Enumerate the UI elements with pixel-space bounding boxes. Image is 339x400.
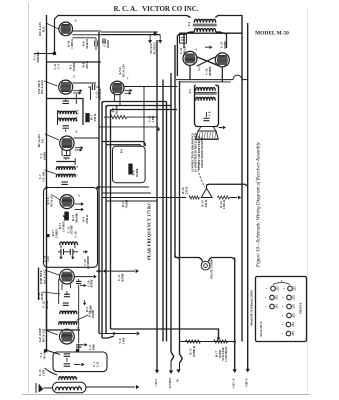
junction dots avc top — [45, 186, 99, 189]
resistor R box if1 — [86, 114, 89, 122]
label R-7 30000 — [111, 105, 118, 114]
transformer T-4 secondary — [194, 28, 215, 31]
wire bus x175 — [174, 45, 176, 258]
label R-17 volume — [215, 346, 229, 361]
cap C-18 — [64, 291, 70, 297]
svg-text:235: 235 — [291, 295, 295, 300]
wire P6 feed2 — [106, 145, 141, 147]
capacitor C-24 block — [180, 35, 187, 44]
wire V4 arrow — [75, 202, 85, 211]
cap C-9 det — [63, 151, 69, 158]
wire V1 grid loop — [55, 16, 171, 56]
svg-text:115-160: 115-160 — [41, 171, 45, 182]
tube V7 AF RCA-235 — [60, 329, 75, 344]
label C-13 1MF — [148, 115, 155, 122]
coil L-7 — [60, 311, 77, 314]
wire lowif frame — [47, 291, 81, 330]
coil L-2 — [58, 111, 77, 114]
wire C-17 row — [96, 269, 139, 273]
label L-5 — [75, 174, 79, 176]
wire tri up — [207, 184, 248, 188]
svg-text:1 MF: 1 MF — [151, 115, 155, 122]
svg-text:.05MF: .05MF — [120, 273, 124, 282]
svg-text:RCA-235: RCA-235 — [41, 328, 45, 342]
svg-text:3: 3 — [78, 194, 80, 198]
svg-text:R. C. A. VICTOR CO INC.: R. C. A. VICTOR CO INC. — [113, 5, 198, 13]
wire V6 plate — [124, 86, 177, 88]
resistor R-17 zig — [214, 340, 228, 343]
wire speaker box — [195, 85, 219, 127]
svg-text:.05MF: .05MF — [90, 279, 94, 288]
wire V2 grid arrows — [73, 89, 83, 95]
label L-4 — [75, 166, 79, 168]
svg-text:235: 235 — [274, 304, 278, 309]
wire L10 legs — [61, 245, 75, 248]
wire T4 left — [170, 16, 191, 18]
svg-text:Figure 10—Schematic Wiring Dia: Figure 10—Schematic Wiring Diagram of Re… — [255, 141, 262, 268]
svg-text:.02MF: .02MF — [223, 41, 227, 50]
tube layout table — [250, 277, 307, 342]
cap C-7 bot — [62, 126, 68, 132]
svg-text:+45 V: +45 V — [154, 378, 158, 387]
wire bus x110 — [110, 110, 112, 330]
wire c18 pointer — [43, 292, 60, 294]
svg-text:PILOT LAMP: PILOT LAMP — [210, 259, 214, 278]
switch A HOT — [167, 352, 174, 389]
label C-2 70-140 — [39, 350, 46, 359]
resistor R-13 zig — [189, 196, 200, 199]
label R-18 — [82, 214, 89, 224]
svg-text:RCA-235: RCA-235 — [43, 270, 47, 284]
label TO DIAL — [149, 42, 156, 54]
svg-text:235: 235 — [291, 313, 295, 318]
label PILOT LAMP — [210, 259, 214, 278]
svg-text:6: 6 — [196, 48, 198, 52]
label 5 pin — [73, 75, 75, 79]
chassis triangle — [201, 188, 212, 197]
svg-text:12: 12 — [75, 320, 79, 324]
svg-text:CONTROL: CONTROL — [224, 346, 228, 361]
page bottom edge — [22, 394, 310, 396]
wire V4 pointer — [53, 195, 61, 200]
svg-text:I.F.: I.F. — [40, 138, 44, 143]
label R-3 350 — [90, 113, 97, 121]
svg-text:RCA-224: RCA-224 — [40, 80, 44, 94]
cap C if2 — [61, 182, 68, 184]
wire if2 top loop — [56, 158, 75, 165]
wire out hump — [233, 75, 248, 80]
note text block — [191, 132, 205, 172]
note pointer — [198, 162, 204, 187]
svg-text:R.F.: R.F. — [41, 26, 45, 32]
wire bus x166 — [166, 102, 168, 342]
svg-text:270 Ω: 270 Ω — [184, 186, 188, 194]
transformer T-4 core — [193, 24, 217, 26]
label C-25 02 — [220, 41, 227, 50]
loop antenna capsule — [53, 382, 87, 393]
label R-13 250 — [201, 199, 208, 207]
svg-text:350 Ω: 350 Ω — [85, 61, 89, 69]
page right edge — [307, 8, 309, 392]
svg-text:2-25: 2-25 — [46, 256, 50, 262]
tube V2 RCA-224 OSC — [59, 80, 73, 94]
wire V6b pointer — [45, 270, 59, 275]
label L-1 1 — [77, 385, 81, 387]
wire if2 pointer — [45, 170, 57, 174]
label 2 pin — [77, 327, 79, 331]
figure caption Figure 10 — [255, 141, 262, 268]
svg-text:5000: 5000 — [91, 344, 95, 351]
arrow lowif — [83, 300, 86, 306]
wire if1 frame — [47, 99, 84, 126]
wire bus x163 — [162, 80, 164, 342]
terminal sq left — [44, 349, 47, 352]
label R trim — [65, 157, 68, 161]
wire mid merge1 — [111, 329, 221, 341]
coil L-4 — [56, 167, 75, 170]
cap C-8 coupling — [88, 84, 100, 90]
resistor R-15 zig — [185, 340, 200, 343]
arrow osc r — [74, 363, 85, 367]
wire bus x46 — [46, 15, 48, 351]
wire T4 sec legs — [184, 32, 227, 48]
label C-12 250 — [95, 88, 102, 100]
label 1ST DET — [37, 80, 44, 94]
svg-text:235: 235 — [275, 286, 279, 291]
wire V3 pointer — [45, 134, 59, 140]
resistor R-6 vert — [129, 164, 132, 174]
label AVC RCA-235 — [118, 64, 125, 77]
label S-1 — [197, 66, 201, 71]
wire V3 legs — [62, 149, 70, 157]
wire V7 leg — [78, 344, 80, 352]
label R-11 — [58, 220, 65, 232]
svg-text:4700 Ω: 4700 Ω — [85, 214, 89, 224]
label T-5 — [188, 89, 192, 94]
label R-9 — [82, 39, 89, 49]
svg-text:P-6: P-6 — [120, 148, 124, 153]
svg-text:500,000: 500,000 — [74, 213, 78, 223]
label C-7b — [38, 171, 45, 182]
cap C16a — [58, 249, 78, 255]
svg-text:9: 9 — [225, 64, 229, 66]
svg-text:2440 Ω: 2440 Ω — [85, 39, 89, 49]
tube V3 RCA-235 — [60, 136, 74, 150]
label R-14 1350 — [219, 199, 226, 209]
label C-19 lab — [42, 300, 49, 309]
cap C-4 — [95, 38, 97, 50]
label C-17 — [117, 273, 124, 282]
svg-text:L-2: L-2 — [76, 109, 80, 114]
svg-text:6: 6 — [75, 19, 77, 23]
label 9 pin — [225, 64, 229, 66]
label C-4 val — [103, 40, 110, 49]
label P-6 — [120, 148, 124, 153]
wire vol row — [180, 340, 237, 343]
wire filament 1 — [102, 102, 167, 104]
enclosure pp box left — [177, 33, 242, 76]
wire bus x38 — [38, 268, 40, 301]
wire bus x235 +22V — [234, 258, 236, 371]
label L-7 — [76, 311, 80, 313]
svg-text:1.0 MEG: 1.0 MEG — [61, 220, 65, 232]
svg-text:MODEL M-50: MODEL M-50 — [255, 31, 289, 37]
transformer T-5 secondary — [196, 97, 216, 100]
svg-text:50,000: 50,000 — [91, 310, 95, 319]
svg-text:2: 2 — [77, 327, 79, 331]
label 6 pin — [75, 19, 77, 23]
svg-text:S-1: S-1 — [197, 66, 201, 71]
label R-19 left — [181, 186, 188, 194]
svg-text:-B: -B — [176, 379, 180, 382]
svg-text:Model M-50 (Much) (1930): Model M-50 (Much) (1930) — [250, 290, 254, 325]
svg-text:235: 235 — [274, 295, 278, 300]
label C-3 if — [39, 152, 46, 161]
wire bus x171 A-hot — [170, 73, 172, 352]
wire pilot row — [175, 258, 235, 262]
label L-2 — [76, 109, 80, 114]
label L-10 — [73, 231, 77, 238]
label AF AMP — [38, 328, 45, 342]
wire bias h197 — [102, 197, 186, 199]
label 4 pin — [75, 130, 77, 134]
resistor R-14 zig — [218, 196, 230, 199]
switch -B — [176, 354, 183, 383]
transformer T-5 primary — [196, 88, 216, 91]
wire V3 top — [74, 137, 99, 139]
label C-11 left — [33, 51, 40, 62]
wire antenna out arrow — [86, 385, 140, 389]
wire P6 feed1 — [102, 142, 145, 147]
resistor R-12 vert — [63, 212, 68, 220]
svg-text:C-8: C-8 — [208, 111, 212, 116]
wire V1 plate lines — [72, 31, 160, 38]
svg-text:1 MF: 1 MF — [121, 337, 125, 344]
transformer T-4 primary — [194, 19, 215, 22]
coil L-8 — [59, 322, 77, 325]
svg-text:C-5: C-5 — [56, 64, 60, 69]
terminal sq avc — [46, 234, 49, 237]
svg-text:FRONT: FRONT — [299, 301, 303, 313]
wire dial pair — [101, 32, 160, 35]
cap V7 bot — [76, 345, 82, 347]
cap det2 — [76, 279, 82, 284]
wire det2 legs — [62, 284, 71, 291]
wire mid merge2 — [102, 336, 114, 338]
cap C16b — [83, 250, 88, 253]
wire V2 col down — [76, 62, 99, 104]
wire c13 pointer — [45, 368, 58, 375]
wire filament 2 — [106, 106, 171, 108]
label 2ND DET — [39, 269, 46, 284]
label L-8 — [75, 320, 79, 324]
wire det2 col2 — [58, 279, 60, 304]
svg-text:T-5: T-5 — [188, 89, 192, 94]
cap C-26 spk — [204, 112, 210, 121]
label 60 pin — [196, 48, 198, 52]
wire det2 arrow — [75, 275, 97, 279]
arrow pp mid — [205, 45, 212, 49]
resistor R-7 30000 — [104, 115, 157, 118]
tube V6b 2nd det RCA-235 — [60, 269, 75, 284]
wire mid h193 — [102, 192, 151, 194]
svg-text:RCA-235: RCA-235 — [122, 64, 126, 77]
label C-13 bot — [38, 369, 45, 376]
enclosure AVC box — [44, 188, 98, 268]
label L-6 2 — [75, 376, 79, 378]
enclosure P-6 pad — [113, 146, 146, 182]
svg-text:T-4: T-4 — [187, 22, 191, 27]
label R-13 50000 — [88, 310, 95, 319]
terminal sq osc — [76, 349, 79, 352]
coil L-1 — [56, 387, 82, 390]
wire bus x247 +180V — [247, 23, 249, 369]
label C-20 — [86, 279, 93, 288]
label spk cap — [208, 111, 212, 116]
wire V6 arrows — [125, 89, 133, 95]
wire pp bottom1 — [189, 65, 191, 79]
tube V9 RCA-247 — [215, 53, 229, 67]
wire row join y53 — [34, 52, 56, 55]
coil L-6 — [59, 377, 77, 380]
svg-text:235: 235 — [292, 286, 296, 291]
wire V2 pointer — [44, 81, 58, 86]
label 2-25a — [83, 256, 90, 269]
wire C-13 drop — [99, 127, 160, 132]
tube V4 AVC amp — [60, 195, 74, 209]
svg-text:5: 5 — [73, 75, 75, 79]
label 3 pin — [78, 194, 80, 198]
wire V7 pointer — [45, 330, 58, 335]
label R-20 — [205, 66, 212, 76]
label R-x — [85, 305, 92, 314]
svg-text:L-10: L-10 — [73, 231, 77, 238]
wire bus x242 — [241, 15, 243, 342]
wire V3 arrows — [75, 146, 84, 152]
speaker cone — [196, 127, 219, 140]
arrow avc d1 — [59, 254, 62, 260]
svg-text:PLATES: PLATES — [152, 42, 156, 54]
arrow speaker out — [219, 126, 227, 130]
svg-text:70-140: 70-140 — [43, 350, 47, 359]
transformer T-5 core — [194, 92, 217, 94]
label AVC rca — [46, 194, 53, 207]
svg-text:.05MF: .05MF — [106, 40, 110, 49]
label T-4 — [187, 22, 191, 27]
wire out h79 — [176, 79, 233, 81]
svg-text:235: 235 — [291, 331, 295, 336]
svg-text:90MMF: 90MMF — [36, 51, 40, 62]
svg-text:2 MEG: 2 MEG — [54, 228, 58, 238]
svg-text:250 Ω: 250 Ω — [204, 199, 208, 207]
label C-15 — [66, 225, 73, 234]
page left edge — [28, 3, 30, 393]
wire mid h187 — [99, 186, 149, 188]
terminal +45V — [154, 370, 159, 387]
svg-text:2-25MMF: 2-25MMF — [86, 256, 90, 269]
label R-8 — [82, 61, 89, 69]
svg-text:30,000: 30,000 — [114, 105, 118, 114]
svg-text:RCA-247 A: RCA-247 A — [259, 321, 263, 337]
wire pp cross — [197, 57, 220, 66]
label R-4b — [121, 199, 128, 208]
arrow avc d2 — [71, 254, 74, 260]
wire bus x106 — [105, 106, 107, 334]
wire bus x102 — [101, 102, 103, 339]
wire x144 drop — [143, 87, 145, 147]
label AF RCA-235 — [37, 134, 44, 148]
wire V2 top — [73, 82, 96, 84]
arrow dial up — [153, 31, 157, 36]
label C-1 lab — [92, 361, 99, 367]
arrow V7 r — [81, 343, 88, 346]
svg-text:10,800 Ω: 10,800 Ω — [192, 345, 196, 357]
wire mid h201 — [106, 200, 157, 202]
label 7 pin — [127, 77, 129, 81]
wire bias right — [230, 195, 241, 199]
enclosure osc box — [53, 352, 107, 372]
wire bus x99 — [98, 32, 100, 334]
wire pp bottom2 — [221, 67, 223, 82]
svg-text:‘A’ HOT: ‘A’ HOT — [167, 377, 172, 389]
label RCA-235 R.F. — [38, 22, 45, 36]
label C-24 — [179, 47, 186, 55]
label C-bot — [88, 344, 95, 351]
svg-text:4: 4 — [75, 130, 77, 134]
svg-text:10,000: 10,000 — [72, 62, 76, 71]
svg-text:+180 V: +180 V — [245, 378, 249, 388]
coil L-5 — [56, 174, 75, 177]
svg-text:7: 7 — [127, 77, 129, 81]
wire out h81 — [180, 81, 231, 83]
cap C-1 — [64, 358, 71, 366]
wire V2 loop — [47, 61, 102, 63]
label R-15 — [189, 345, 196, 357]
terminal +22.5V — [232, 369, 237, 388]
label PEAK FREQUENCY 175 KC — [147, 202, 152, 260]
label C-9 1MF — [118, 337, 125, 344]
label MODEL M-50 — [255, 31, 289, 37]
svg-text:350 Ω: 350 Ω — [93, 113, 97, 121]
svg-text:.05MF: .05MF — [43, 152, 47, 161]
label L-3 — [75, 116, 79, 121]
tube V1 RCA-235 RF — [59, 22, 73, 36]
label C-18 — [37, 292, 44, 301]
cap C-2 — [64, 354, 71, 356]
wire mid arrow 333 — [99, 331, 140, 335]
wire T4 right — [215, 16, 242, 18]
svg-text:10,000: 10,000 — [135, 168, 139, 177]
cap C mid — [103, 39, 105, 44]
terminal +180V — [245, 369, 250, 388]
arrow dial down1 — [148, 35, 152, 44]
antenna plug — [36, 383, 52, 393]
svg-text:1 MEG: 1 MEG — [70, 39, 74, 49]
svg-text:+22½ V: +22½ V — [232, 378, 236, 389]
tube V8 RCA-247 — [183, 51, 197, 65]
coil L-10 — [60, 242, 78, 245]
svg-text:.004MF: .004MF — [208, 66, 212, 76]
wire V6 legs — [115, 95, 120, 106]
wire bus x179 -B — [179, 81, 181, 354]
tube V6 AVC RCA-235 — [110, 81, 124, 95]
label R-10b — [69, 62, 76, 71]
svg-text:1 MF: 1 MF — [41, 369, 45, 376]
arrow det2 r — [80, 284, 87, 287]
label C-11b — [53, 63, 60, 70]
svg-text:1350 Ω: 1350 Ω — [222, 199, 226, 209]
wire V1 pointer — [46, 23, 59, 29]
